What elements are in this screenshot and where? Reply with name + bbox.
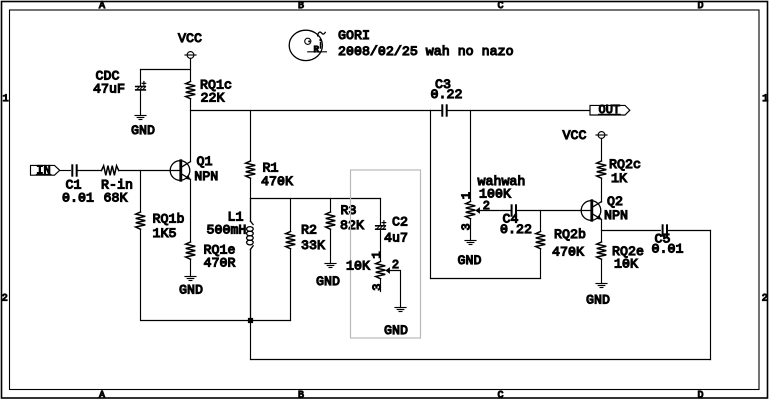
wire RQ1c to node/collector	[190, 99, 192, 162]
wire bottom feedback rail	[251, 359, 711, 361]
svg-text:GND: GND	[586, 293, 610, 308]
svg-text:A: A	[99, 391, 105, 400]
svg-text:500mH: 500mH	[207, 223, 247, 238]
svg-text:D: D	[698, 1, 704, 12]
wire RQ2b to bottom rail	[540, 249, 542, 279]
svg-text:1: 1	[460, 192, 474, 199]
svg-text:1K5: 1K5	[153, 226, 177, 241]
wire C3 to OUT	[447, 110, 590, 112]
transistor Q1 NPN	[170, 161, 190, 181]
ground RQ1e	[185, 276, 196, 278]
resistor R3 82K	[326, 212, 336, 229]
svg-text:VCC: VCC	[178, 31, 202, 46]
wire R1 to node B	[250, 178, 252, 198]
inductor L1 500mH	[247, 199, 254, 321]
wire main node to C3	[191, 110, 442, 112]
svg-text:1: 1	[3, 94, 9, 105]
wire CDC down to cap	[140, 70, 142, 87]
wire IN to C1	[60, 170, 71, 172]
wire Q2 emitter down	[601, 220, 603, 242]
resistor RQ2b 470K	[536, 232, 546, 249]
svg-text:IN: IN	[36, 163, 50, 177]
svg-text:3: 3	[460, 223, 474, 230]
resistor RQ1e 470R	[186, 242, 196, 259]
potentiometer 10K	[376, 262, 386, 279]
ground R3	[325, 263, 336, 265]
pot 10K wiper arrow pin 2	[385, 267, 390, 274]
wire wahwah pin3 to ground	[470, 219, 472, 241]
svg-text:C: C	[498, 1, 504, 12]
potentiometer wahwah 100K	[466, 202, 476, 219]
svg-text:NPN: NPN	[194, 169, 218, 184]
svg-text:RQ2c: RQ2c	[609, 157, 641, 172]
svg-text:0.01: 0.01	[652, 241, 684, 256]
svg-text:OUT: OUT	[599, 103, 621, 117]
wire C1 to R-in	[77, 170, 102, 172]
resistor RQ2e 10K	[597, 242, 607, 259]
wire CDC cap to ground	[140, 90, 142, 115]
ground CDC	[135, 115, 146, 117]
svg-text:GND: GND	[316, 274, 340, 289]
ground pot 10K wiper	[395, 307, 406, 309]
wire VCC2 to RQ2c	[601, 138, 603, 161]
wire pot wiper to ground	[390, 271, 401, 308]
wire RQ2e to ground	[601, 259, 603, 283]
capacitor C1 0.01	[71, 165, 73, 175]
resistor RQ1c 22K	[186, 82, 196, 99]
ground wahwah	[465, 240, 476, 242]
svg-text:470K: 470K	[552, 245, 584, 260]
wire R2 down to bottom rail	[290, 249, 292, 321]
svg-text:GND: GND	[384, 323, 408, 338]
wire tap down to RQ2b	[540, 211, 542, 232]
capacitor C4 0.22	[511, 205, 513, 215]
svg-text:10K: 10K	[346, 259, 370, 274]
connector IN	[31, 165, 60, 175]
resistor R2 33K	[286, 232, 296, 249]
capacitor CDC 47uF	[136, 86, 146, 88]
resistor RQ1b 1K5	[136, 212, 146, 229]
wire C4 to Q2 base	[516, 210, 591, 212]
svg-text:2008/02/25 wah no nazo: 2008/02/25 wah no nazo	[338, 44, 514, 59]
wire RQ2c to Q2 collector	[601, 178, 603, 202]
svg-text:R3: R3	[341, 203, 357, 218]
svg-text:4u7: 4u7	[384, 231, 408, 246]
svg-text:1K: 1K	[611, 171, 627, 186]
wire node to R1	[250, 111, 252, 162]
resistor R1 470K	[246, 161, 256, 178]
svg-text:D: D	[698, 391, 704, 400]
wire right drop down	[710, 231, 712, 360]
capacitor C2 4u7	[376, 225, 386, 227]
svg-text:10K: 10K	[614, 256, 638, 271]
svg-text:0.22: 0.22	[500, 222, 532, 237]
connector OUT	[590, 105, 630, 115]
wahwah wiper arrow pin 2	[475, 207, 480, 214]
svg-text:C2: C2	[392, 215, 408, 230]
svg-text:1: 1	[762, 94, 768, 105]
wire node B horizontal	[251, 198, 381, 200]
svg-text:Q2: Q2	[607, 194, 623, 209]
resistor R-in 68K	[102, 166, 119, 176]
svg-text:RQ1b: RQ1b	[153, 212, 185, 227]
wire node B down to C2	[380, 199, 382, 226]
svg-text:GND: GND	[131, 123, 155, 138]
svg-text:NPN: NPN	[604, 208, 628, 223]
svg-text:B: B	[298, 391, 304, 400]
svg-text:470R: 470R	[204, 256, 236, 271]
wire C2 to pot 10K	[380, 230, 382, 262]
wire drop left of C3 down	[430, 111, 432, 279]
wire node B to R3	[330, 199, 332, 213]
wire Q1 emitter down to RQ1e	[190, 180, 192, 242]
svg-text:22K: 22K	[201, 91, 225, 106]
resistor RQ2c 1K	[597, 161, 607, 178]
wire R-in to Q1 base	[119, 170, 181, 172]
svg-text:82K: 82K	[340, 218, 364, 233]
wire VCC1 down to RQ1c	[190, 58, 192, 81]
svg-text:0.22: 0.22	[431, 87, 463, 102]
svg-text:GND: GND	[458, 253, 482, 268]
wire base tap down to RQ1b	[140, 171, 142, 213]
group box (C2 + 10K pot)	[351, 170, 421, 338]
power VCC (left)	[187, 52, 194, 59]
wire RQ1e to ground	[190, 259, 192, 276]
wire node B to R2	[290, 199, 292, 232]
wire RQ1b down and right to junction	[141, 229, 291, 320]
svg-text:A: A	[99, 1, 105, 12]
wire C5 to right drop	[667, 230, 711, 232]
wire junction down to bottom rail	[250, 320, 252, 360]
svg-text:GND: GND	[179, 282, 203, 297]
svg-text:2: 2	[762, 294, 768, 305]
wire node OUT tap down to wahwah pot	[470, 111, 472, 202]
svg-text:R2: R2	[301, 223, 317, 238]
GORI logo face	[289, 30, 326, 60]
svg-text:GORI: GORI	[338, 28, 370, 43]
capacitor C3 0.22	[441, 105, 443, 115]
svg-text:VCC: VCC	[563, 128, 587, 143]
svg-text:3: 3	[370, 283, 384, 290]
wire CDC tap horizontal	[141, 69, 191, 71]
svg-text:RQ2b: RQ2b	[554, 227, 586, 242]
junction node dot	[248, 318, 253, 323]
svg-text:2: 2	[2, 294, 8, 305]
ground RQ2e	[596, 283, 607, 285]
svg-text:Q1: Q1	[197, 154, 213, 169]
pin 3 stub pot 10K	[380, 279, 382, 292]
svg-text:1: 1	[370, 251, 384, 258]
capacitor C5 0.01	[662, 225, 664, 235]
svg-text:0.01: 0.01	[62, 191, 94, 206]
wire across to RQ2b bottom	[431, 278, 541, 280]
svg-text:R: R	[314, 45, 320, 55]
transistor Q2 NPN	[581, 201, 601, 221]
svg-text:C: C	[498, 391, 504, 400]
svg-text:68K: 68K	[104, 191, 128, 206]
svg-text:B: B	[298, 1, 304, 12]
svg-text:33K: 33K	[301, 238, 325, 253]
wire wahwah wiper to C4	[480, 210, 512, 212]
power VCC (right)	[598, 132, 605, 139]
svg-text:47uF: 47uF	[93, 82, 125, 97]
wire R3 to ground	[330, 229, 332, 263]
wire emitter node to C5	[602, 230, 661, 232]
svg-text:470K: 470K	[261, 174, 293, 189]
